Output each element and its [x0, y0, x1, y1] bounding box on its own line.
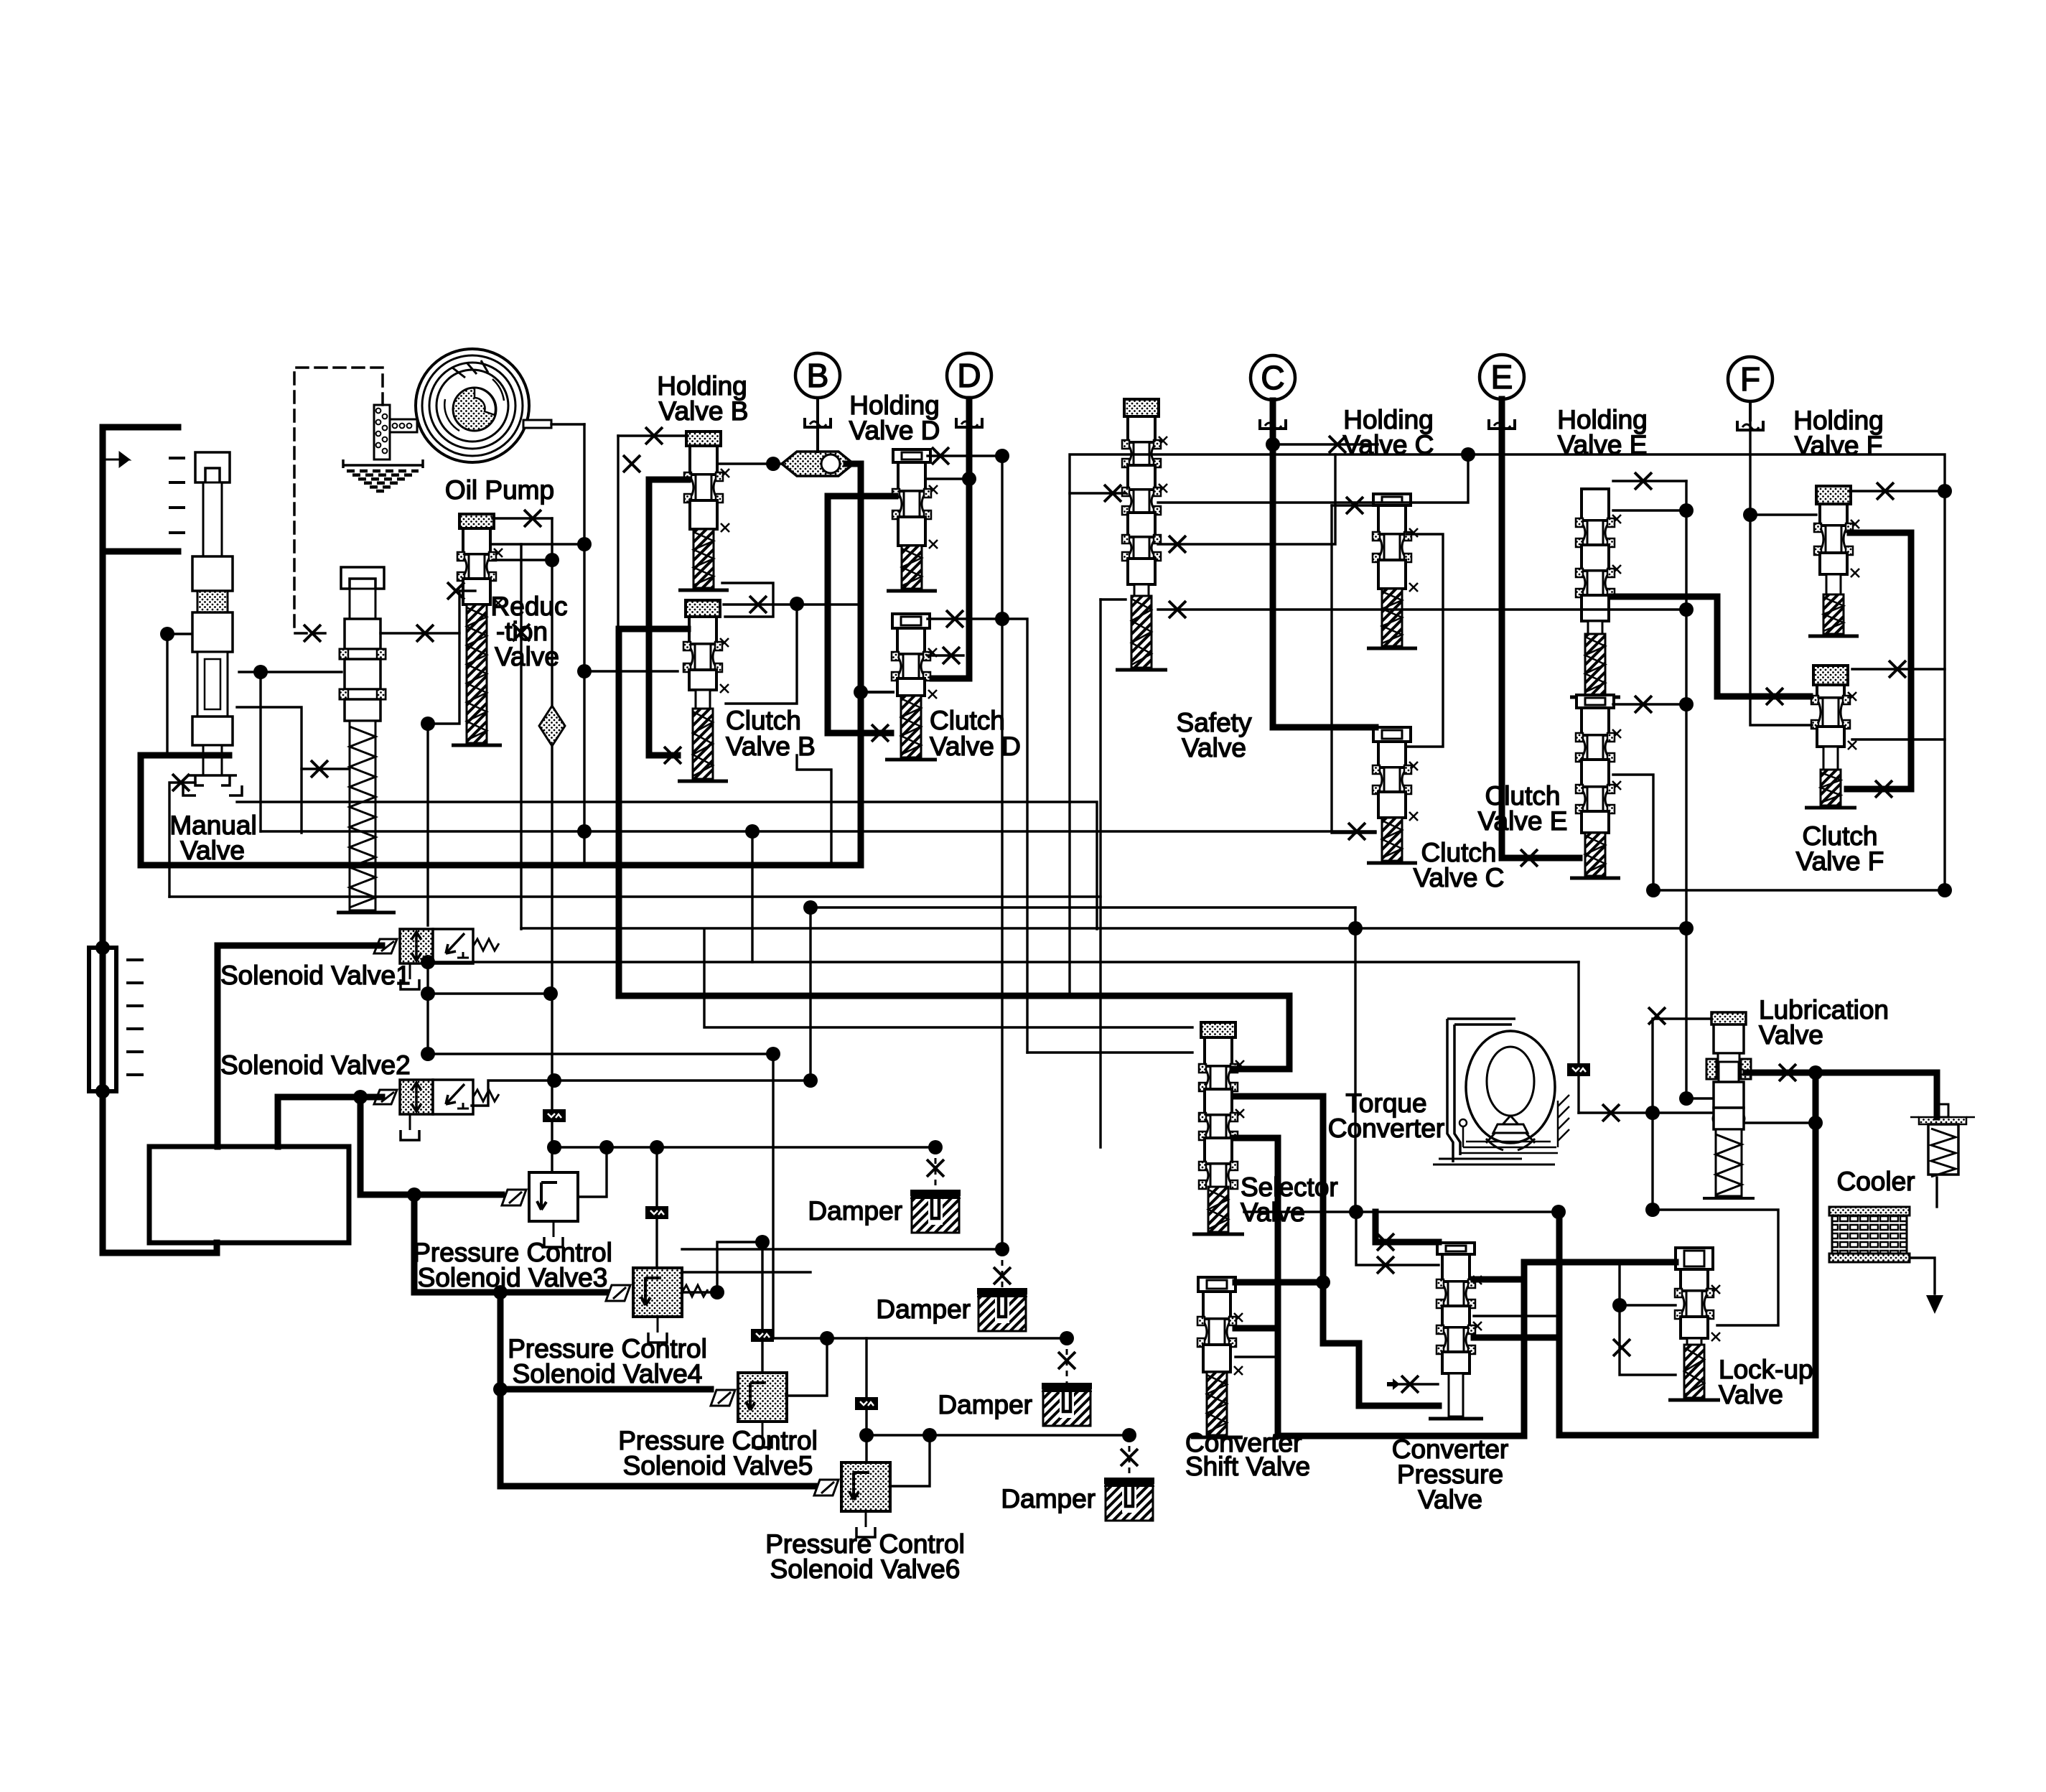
- wire: selector feed1: [704, 929, 1192, 1027]
- wire: manual valve drain: [166, 634, 168, 754]
- wire: trunk x2349: [1686, 481, 1711, 1098]
- lubrication valve: [1703, 1012, 1755, 1198]
- wire: safety out y700: [1158, 454, 1468, 503]
- svg-text:Valve: Valve: [495, 642, 559, 671]
- wire: staircase 1: [360, 1097, 502, 1195]
- node F: [1728, 357, 1772, 401]
- wire: regulator pilot drop: [428, 633, 459, 724]
- wire: manual to regulator: [239, 671, 342, 673]
- svg-text:D: D: [957, 357, 981, 394]
- svg-text:Damper: Damper: [808, 1196, 902, 1226]
- accumulator top dot: [95, 941, 110, 955]
- wire: holding C cap X line: [1332, 504, 1378, 506]
- wire: holding F out: [1847, 533, 1911, 789]
- wire: damper4 hang: [1129, 1435, 1131, 1478]
- clutch port symbol F: [1737, 421, 1763, 430]
- wire: B drop: [816, 398, 819, 418]
- wire: holding B to clutch B spring: [649, 480, 688, 755]
- wire: safety right y849: [1158, 608, 1686, 610]
- wire: solV2 feed: [278, 1094, 382, 1101]
- svg-text:Shift Valve: Shift Valve: [1185, 1452, 1310, 1481]
- cooler: [1829, 1207, 1910, 1262]
- wire: holding E land1 line: [1613, 509, 1686, 511]
- wire: holding B to check valve: [719, 462, 782, 465]
- wire: lub feed drop: [1577, 962, 1579, 1113]
- converter shift valve: [1191, 1277, 1243, 1437]
- port dashes accumulator: [126, 960, 144, 1075]
- wire: E down: [1502, 399, 1579, 858]
- wire: cpv right2: [1474, 1315, 1559, 1317]
- svg-text:Damper: Damper: [876, 1294, 971, 1324]
- svg-text:Solenoid Valve1: Solenoid Valve1: [220, 961, 411, 990]
- wire: clutch D cap line: [928, 619, 1027, 1053]
- wire: bypass to cooler: [1935, 1177, 1938, 1207]
- wire: F drop: [1749, 401, 1752, 421]
- svg-text:Valve D: Valve D: [930, 732, 1021, 761]
- svg-text:Valve E: Valve E: [1478, 806, 1568, 836]
- safety valve: [1116, 399, 1167, 670]
- wire: staircase pcs5: [500, 1386, 711, 1393]
- svg-text:Solenoid Valve3: Solenoid Valve3: [418, 1263, 608, 1292]
- wire: selector feed2: [1027, 1051, 1192, 1053]
- label safety valve: [1177, 708, 1252, 762]
- label holding valve F: [1793, 406, 1883, 460]
- orifice pcs4: [645, 1206, 668, 1219]
- wire: clutch E cap X: [1613, 703, 1686, 705]
- wire: E drop: [1500, 399, 1503, 419]
- wire: main trunk y1205: [141, 862, 861, 869]
- wire: solV1 out branch: [428, 992, 552, 994]
- plugged port X marks: [172, 427, 1906, 1466]
- wire: tc out line: [1244, 1210, 1559, 1213]
- svg-text:Converter: Converter: [1328, 1114, 1444, 1143]
- oil pump: [416, 349, 551, 462]
- pressure control solenoid valve 4: [606, 1268, 708, 1343]
- cooler bypass valve: [1910, 1104, 1975, 1177]
- wire: safety left y835: [1101, 598, 1126, 600]
- label torque converter: [1328, 1088, 1444, 1143]
- wire: pump drop: [583, 424, 585, 864]
- node C: [1251, 355, 1295, 400]
- wire: x726 drop: [520, 544, 522, 929]
- wire: main line to selector: [619, 996, 1289, 1069]
- wire: line y1864: [773, 1337, 1067, 1339]
- wire: D down: [933, 399, 969, 678]
- wire: staircase 3: [500, 1292, 814, 1486]
- wire: line y1340: [428, 961, 1579, 963]
- wire: csv right2: [1235, 1355, 1278, 1358]
- label holding valve B: [657, 371, 748, 426]
- svg-text:Valve F: Valve F: [1795, 431, 1883, 460]
- wire: holding C right ports: [1406, 534, 1443, 747]
- wire: safety drop x1533: [1099, 599, 1101, 1147]
- reduction valve: [452, 514, 503, 745]
- svg-text:Valve B: Valve B: [659, 396, 749, 426]
- wire: holding B to clutch B cap: [722, 583, 773, 617]
- wire: y1117 line: [237, 802, 1097, 929]
- oil strainer: [343, 405, 423, 491]
- clutch port symbol E: [1489, 419, 1515, 429]
- accumulator: [89, 948, 116, 1091]
- svg-text:Valve C: Valve C: [1343, 430, 1434, 459]
- wire: rail bracket top arm: [103, 424, 178, 431]
- wire: reduction cap X line: [492, 517, 552, 519]
- wire: clutch D feed: [861, 691, 893, 694]
- wire: holding E out thick: [1612, 597, 1810, 696]
- wire: pcs3 pilot top: [551, 518, 553, 706]
- wire: holding B cap line: [618, 434, 688, 437]
- wire: lockup right loop: [1653, 1210, 1778, 1325]
- wire: C down: [1273, 401, 1375, 727]
- wire: clutch B drain: [797, 755, 831, 865]
- holding valve D: [887, 449, 938, 591]
- wire: manual valve foot drop: [169, 783, 195, 897]
- clutch valve F: [1805, 666, 1856, 808]
- label converter pressure valve: [1392, 1434, 1508, 1514]
- wire: cpv right3: [1474, 1335, 1559, 1341]
- wire: lockup pilot mid: [1620, 1304, 1676, 1306]
- orifice pcs3: [543, 1109, 566, 1122]
- wire: clutch F land2 port: [1852, 738, 1945, 740]
- wire: selector feed drop: [809, 907, 811, 1081]
- wire: holding C feed: [1273, 443, 1378, 445]
- wire: line y1598: [554, 1146, 935, 1148]
- svg-text:Solenoid Valve2: Solenoid Valve2: [220, 1050, 411, 1080]
- orifice pcs5: [751, 1329, 774, 1342]
- label manual valve: [169, 811, 256, 865]
- wire: regulator riser: [259, 672, 261, 831]
- wire: lockup pilot tap: [1620, 1262, 1676, 1375]
- wire: cpv drain: [1400, 1383, 1438, 1385]
- label holding valve D: [849, 391, 940, 445]
- wire: clutch E mid: [1613, 775, 1945, 890]
- wire: F down: [1750, 402, 1812, 725]
- clutch valve C: [1367, 727, 1418, 863]
- label holding valve E: [1557, 405, 1647, 459]
- lock-up valve: [1668, 1248, 1720, 1400]
- wire: csv land tap: [1235, 1325, 1278, 1332]
- node E: [1480, 355, 1524, 399]
- clutch port symbol B: [805, 418, 831, 427]
- wire: top link line: [1070, 454, 1945, 996]
- wire: holding F feed: [1750, 513, 1816, 515]
- wire: holding D pilot drop: [1001, 456, 1003, 1249]
- svg-text:Valve C: Valve C: [1414, 863, 1505, 892]
- wire: csv cap tap: [1235, 1279, 1323, 1286]
- wire: pcs6 pilot: [865, 1338, 867, 1462]
- svg-text:C: C: [1261, 359, 1284, 396]
- wire: pcs5 pilot: [761, 1242, 763, 1373]
- check valve: [782, 452, 854, 476]
- solenoid valve 1: [374, 929, 499, 989]
- wire: line y1772: [682, 1271, 811, 1273]
- svg-text:Valve E: Valve E: [1558, 430, 1648, 459]
- svg-text:Valve: Valve: [1759, 1020, 1823, 1050]
- control unit box: [149, 1147, 349, 1243]
- torque converter: [1433, 1019, 1569, 1165]
- wire: damper1 hang: [935, 1147, 937, 1190]
- port dashes top: [169, 458, 185, 533]
- wire: cpv top feed: [1375, 1212, 1439, 1242]
- svg-text:Valve: Valve: [1182, 733, 1246, 762]
- wire: reduction right port2: [492, 559, 552, 561]
- wire: pcs4 out: [682, 1242, 762, 1292]
- label pcs6: [765, 1529, 965, 1584]
- label damper3: [938, 1390, 1032, 1419]
- wire: holding D waist feed: [828, 496, 895, 733]
- node D: [947, 353, 991, 398]
- label lock-up valve: [1719, 1355, 1813, 1409]
- wire: solV2 out: [472, 1081, 811, 1106]
- wire: pcs3 out: [578, 1147, 607, 1197]
- svg-text:Damper: Damper: [1001, 1484, 1096, 1513]
- label selector valve: [1241, 1172, 1338, 1227]
- wire: pcs6 out: [890, 1435, 930, 1486]
- accumulator bottom dot: [95, 1084, 110, 1098]
- svg-text:Clutch: Clutch: [930, 706, 1005, 735]
- svg-text:Clutch: Clutch: [726, 706, 801, 735]
- converter pressure valve: [1429, 1243, 1483, 1419]
- wire: selector to lockup trunk: [1278, 1138, 1676, 1436]
- svg-text:Damper: Damper: [938, 1390, 1032, 1419]
- label clutch valve D: [930, 706, 1021, 761]
- wire: cpv right1: [1474, 1277, 1524, 1283]
- wire: cpv feed2: [1356, 1212, 1439, 1265]
- label converter shift valve: [1185, 1428, 1310, 1481]
- wire: holding B cap drop thin: [617, 436, 619, 629]
- label damper4: [1001, 1484, 1096, 1513]
- label clutch valve F: [1796, 821, 1884, 876]
- wire: safety cap feed: [1070, 492, 1126, 494]
- label damper2: [876, 1294, 971, 1324]
- wire: x2302 lower: [1651, 1113, 1653, 1210]
- wire: safety right y758: [1158, 454, 1335, 544]
- wire: manual valve bottom drain: [141, 755, 229, 865]
- holding valve B: [678, 431, 729, 590]
- wire: x596 feed: [426, 724, 429, 925]
- wire: clutch B land2 port: [726, 604, 797, 704]
- label pcs5: [618, 1426, 818, 1480]
- label lubrication valve: [1759, 995, 1889, 1050]
- wire: regulator spring port: [302, 767, 350, 770]
- svg-text:Valve F: Valve F: [1796, 846, 1884, 876]
- clutch port symbol C: [1260, 419, 1286, 429]
- wire: selector out1 thick: [1234, 1093, 1323, 1100]
- wire: pump outlet: [551, 423, 584, 425]
- wire: damper2 hang: [1001, 1249, 1004, 1288]
- wire: lub top X line: [1653, 1019, 1711, 1113]
- svg-text:Solenoid Valve4: Solenoid Valve4: [513, 1359, 703, 1389]
- wire: pcs5 out: [786, 1338, 827, 1396]
- flow arrow: [103, 453, 129, 466]
- svg-text:B: B: [807, 357, 829, 394]
- label solenoid valve2: [220, 1050, 411, 1080]
- wire: left supply rail: [100, 427, 106, 1253]
- wire: manual valve port left: [167, 633, 190, 635]
- damper 1: [910, 1190, 961, 1233]
- label pcs4: [508, 1334, 707, 1389]
- holding valve F: [1808, 486, 1859, 636]
- svg-text:Valve: Valve: [1719, 1380, 1783, 1409]
- wire: holding D land1: [928, 477, 969, 480]
- label clutch valve C: [1414, 838, 1505, 892]
- wire: solV2 feed drop: [275, 1097, 281, 1147]
- wire: pcs4 pilot: [655, 1147, 658, 1268]
- node B: [795, 353, 840, 398]
- pressure control solenoid valve 3: [502, 1172, 578, 1247]
- label reduction valve: [491, 592, 568, 671]
- wire: rail bracket lower arm: [103, 549, 178, 555]
- wire: tc feed x1888: [1354, 907, 1356, 1212]
- label holding valve C: [1343, 405, 1434, 459]
- wire: holding F cap X line: [1849, 490, 1945, 492]
- wire: holding E top X: [1613, 480, 1686, 482]
- wire: damper3 hang: [1066, 1338, 1068, 1383]
- wire: solV1 feed: [218, 943, 382, 949]
- pressure control solenoid valve 6: [814, 1462, 890, 1537]
- manual valve: [183, 452, 242, 795]
- wire: solV1 feed drop: [215, 946, 221, 1147]
- label clutch valve E: [1478, 781, 1568, 836]
- pressure control solenoid valve 5: [711, 1373, 787, 1447]
- svg-text:Cooler: Cooler: [1837, 1167, 1915, 1196]
- wire: clutch B cap line: [724, 603, 861, 605]
- wire: clutch B out to selector: [619, 629, 688, 996]
- clutch valve B: [678, 600, 729, 781]
- clutch valve E: [1570, 695, 1621, 878]
- wire: clutch D land stub: [928, 654, 963, 656]
- damper 2: [977, 1288, 1027, 1331]
- wire: clutch F mid port: [1852, 668, 1945, 670]
- label cooler: [1837, 1167, 1915, 1196]
- selector valve: [1192, 1022, 1244, 1234]
- cpv drain tick: [1387, 1378, 1400, 1390]
- wire: B to check valve: [816, 399, 819, 452]
- wire: regulator right port: [380, 591, 475, 633]
- label clutch valve B: [726, 706, 816, 761]
- wire: manual valve right stub: [237, 707, 302, 833]
- damper 4: [1104, 1478, 1154, 1521]
- line filter: [539, 706, 565, 746]
- solenoid valve 2: [374, 1080, 499, 1140]
- wire: x1048 drop: [751, 831, 753, 962]
- damper 3: [1042, 1383, 1092, 1426]
- wire: lub feed: [1579, 1111, 1711, 1114]
- svg-text:Valve: Valve: [1241, 1198, 1305, 1227]
- wire: D drop: [968, 398, 971, 418]
- wire: y1293 line: [521, 927, 1686, 929]
- wire: x1077 from y1468: [772, 1054, 774, 1338]
- wire: check valve main line: [846, 464, 861, 864]
- wire: staircase 2: [414, 1195, 606, 1292]
- wire: reduction right port1: [492, 543, 584, 545]
- wire: converter loop: [1559, 1073, 1816, 1435]
- label damper1: [808, 1196, 902, 1226]
- wire: line y1740: [682, 1248, 1002, 1250]
- wire: solV1 out: [426, 963, 429, 1054]
- svg-text:Valve B: Valve B: [726, 732, 816, 761]
- clutch valve D: [885, 614, 937, 760]
- label oil pump: [445, 475, 554, 505]
- wire: cooler out arrow: [1910, 1258, 1935, 1294]
- wire: lub out to cooler: [1746, 1073, 1937, 1117]
- wire: line y1999: [866, 1434, 1129, 1436]
- svg-text:Valve D: Valve D: [849, 416, 940, 445]
- holding valve C: [1367, 494, 1418, 648]
- svg-text:E: E: [1491, 358, 1513, 396]
- wire: pcs3 pilot line: [551, 746, 553, 1172]
- holding valve E: [1570, 489, 1621, 697]
- svg-text:Valve: Valve: [180, 836, 245, 865]
- wire: pump to clutch B waist: [584, 670, 678, 672]
- wire: selector out2 thick: [1234, 1135, 1278, 1142]
- orifice tc: [1567, 1063, 1590, 1076]
- svg-text:F: F: [1740, 360, 1760, 398]
- wire: line y1468: [428, 1053, 773, 1055]
- pressure regulator valve: [337, 567, 396, 913]
- svg-text:Valve: Valve: [1418, 1485, 1482, 1514]
- cooler arrowhead: [1926, 1295, 1943, 1314]
- clutch port symbol D: [956, 418, 982, 427]
- orifice pcs6: [855, 1397, 878, 1410]
- wire: y1264 line: [811, 906, 1355, 908]
- label solenoid valve1: [220, 961, 411, 990]
- svg-text:Solenoid Valve6: Solenoid Valve6: [770, 1554, 961, 1584]
- wire: lub out2: [1746, 1121, 1816, 1124]
- wire: C drop: [1271, 400, 1274, 420]
- wire: trunk y1249: [169, 895, 1101, 897]
- wire: clutch C spring link: [1332, 505, 1375, 833]
- wire: selector to csv: [1323, 1096, 1439, 1406]
- svg-text:Oil Pump: Oil Pump: [445, 475, 554, 505]
- svg-text:Solenoid Valve5: Solenoid Valve5: [623, 1451, 813, 1480]
- label pcs3: [413, 1238, 612, 1292]
- wire: rail to control box: [103, 1243, 217, 1253]
- wire: holding D cap X line: [928, 454, 1002, 457]
- wire: dashed pilot line around strainer: [294, 368, 383, 633]
- wire: line y1158: [261, 830, 1375, 832]
